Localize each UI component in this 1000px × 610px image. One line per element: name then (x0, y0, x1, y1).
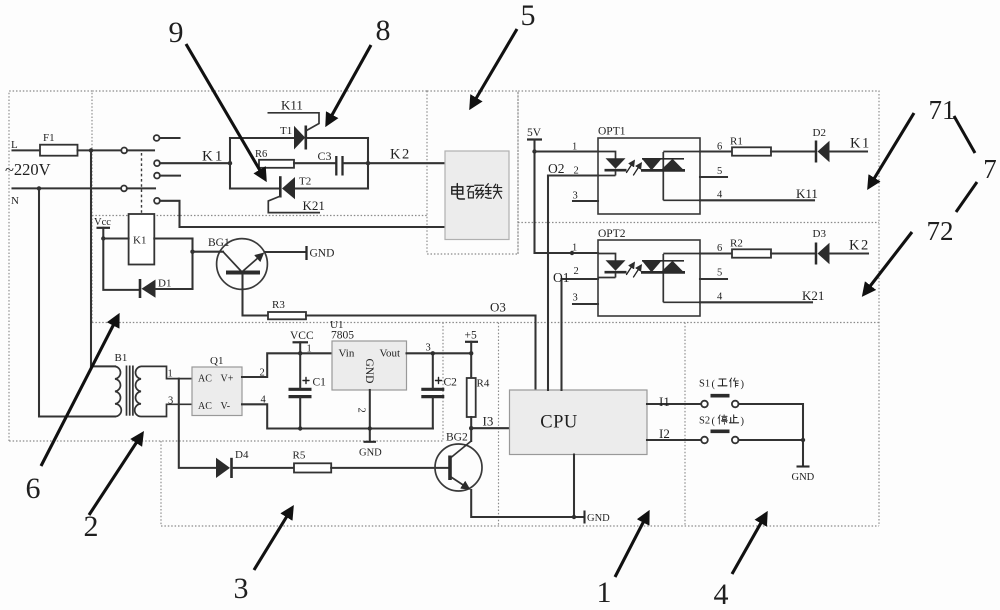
svg-text:Vin: Vin (339, 348, 355, 360)
node L junction (89, 148, 93, 152)
capacitor C1 (289, 388, 312, 391)
capacitor C2 (421, 388, 444, 391)
wire contact to electromagnet lower (160, 201, 445, 227)
wire branch frame (229, 138, 231, 189)
CPU U2 (510, 390, 648, 455)
svg-text:R5: R5 (293, 450, 306, 462)
relay contact top (154, 135, 160, 141)
svg-text:AC: AC (198, 401, 212, 412)
svg-text:R6: R6 (255, 149, 267, 160)
region 3 border (161, 441, 879, 526)
svg-text:2: 2 (574, 166, 579, 177)
svg-text:9: 9 (169, 16, 184, 49)
svg-text:GND: GND (310, 248, 335, 260)
svg-text:GND: GND (363, 359, 375, 384)
relay actuator dashed link (141, 153, 143, 213)
svg-text:R4: R4 (477, 378, 490, 390)
wire switches to gnd (739, 404, 804, 466)
svg-text:2: 2 (84, 510, 99, 543)
node branch frame left (228, 161, 232, 165)
svg-text:GND: GND (587, 513, 610, 524)
lower horizontal border (92, 322, 879, 324)
wire Vout rail (407, 352, 472, 354)
svg-text:3: 3 (168, 396, 173, 407)
resistor R4 (467, 378, 476, 417)
ground at CPU (583, 511, 585, 524)
svg-text:K21: K21 (802, 288, 824, 303)
svg-text:C3: C3 (318, 149, 332, 163)
wire OPT2 pin5 stub (700, 278, 727, 280)
wire Q1 V- to ground rail (242, 404, 433, 428)
wire D4 feed (179, 379, 216, 468)
wire Vcc to K1 coil (103, 237, 128, 239)
electromagnet box (445, 151, 509, 240)
region 7 box border (518, 91, 879, 526)
wire OPT2 pin4 to K21 (700, 301, 812, 303)
node 5V junction (532, 149, 536, 153)
svg-text:3: 3 (573, 191, 578, 202)
node OPT2 pin1 junction (570, 251, 574, 255)
svg-text:I1: I1 (659, 394, 670, 409)
svg-text:8: 8 (376, 14, 391, 47)
relay contact on N (121, 186, 127, 192)
node switch gnd junction (801, 438, 805, 442)
svg-text:5V: 5V (527, 127, 542, 139)
wire N drop to transformer (39, 188, 115, 416)
svg-text:1: 1 (572, 243, 577, 254)
svg-text:GND: GND (792, 472, 815, 483)
svg-text:K1: K1 (850, 136, 871, 152)
svg-text:VCC: VCC (290, 330, 314, 342)
label ci (magnet) (467, 185, 484, 198)
svg-text:S2: S2 (699, 416, 710, 427)
svg-text:71: 71 (929, 95, 956, 125)
svg-text:GND: GND (359, 448, 382, 459)
wire OPT1 pin5 stub (700, 176, 727, 178)
svg-text:F1: F1 (43, 132, 55, 144)
node +5 rail junction (469, 351, 473, 355)
svg-text:C2: C2 (444, 377, 458, 389)
region 71/72 divider (518, 222, 879, 224)
svg-text:R3: R3 (272, 299, 285, 311)
region 6 outer border (9, 91, 92, 441)
wire CPU gnd stem (573, 455, 575, 518)
wire D1 loop left (103, 239, 139, 290)
svg-text:V+: V+ (221, 374, 234, 385)
svg-text:4: 4 (717, 292, 723, 303)
svg-text:I2: I2 (659, 426, 670, 441)
wire 5V to OPT1 pin1 (535, 150, 599, 152)
wire O3 net (306, 314, 536, 316)
svg-text:(: ( (712, 416, 716, 427)
svg-text:BG2: BG2 (446, 432, 468, 444)
svg-text:K2: K2 (849, 238, 870, 254)
wire O1 to OPT2 pin2 (562, 278, 599, 280)
svg-text:4: 4 (714, 578, 729, 610)
wire bottom branch (230, 187, 280, 189)
wire OPT1 pin4 to K11 (700, 199, 814, 201)
region 1/4 divider (684, 323, 686, 527)
svg-text:~220V: ~220V (5, 160, 51, 179)
svg-text:3: 3 (234, 572, 249, 605)
label tie (iron) (485, 184, 502, 199)
svg-text:72: 72 (927, 216, 954, 246)
wire Q1 V+ to VCC rail (242, 353, 332, 377)
svg-text:B1: B1 (115, 352, 128, 364)
wire K1 coil to BG1 collector (154, 237, 192, 239)
svg-text:Q1: Q1 (210, 355, 223, 367)
node gnd rail junction (368, 426, 372, 430)
svg-text:Vout: Vout (380, 348, 401, 360)
svg-text:I3: I3 (483, 414, 494, 429)
svg-text:3: 3 (426, 343, 431, 354)
svg-text:CPU: CPU (540, 413, 578, 433)
region 1/3 divider (498, 323, 500, 527)
svg-text:K11: K11 (281, 98, 303, 113)
svg-text:+5: +5 (465, 330, 477, 342)
node VCC rail junction (298, 351, 302, 355)
svg-text:1: 1 (597, 576, 612, 609)
node C1 ground rail (298, 426, 302, 430)
node N junction (37, 186, 41, 190)
svg-text:D2: D2 (813, 127, 826, 139)
wire N line (13, 187, 122, 189)
wire O1 net (560, 279, 562, 390)
wire L drop to transformer (90, 150, 92, 366)
svg-text:3: 3 (573, 293, 578, 304)
relay contact bottom (154, 198, 160, 204)
node C2 rail junction (431, 351, 435, 355)
svg-text:O2: O2 (548, 161, 565, 176)
svg-text:R2: R2 (730, 238, 743, 250)
svg-text:5: 5 (521, 0, 536, 32)
svg-text:C1: C1 (313, 377, 327, 389)
wire I1 (647, 403, 701, 405)
wire OPT2 pin6 to R2 (700, 252, 732, 254)
node I3 junction (469, 426, 473, 430)
svg-text:K21: K21 (303, 198, 325, 213)
svg-text:Vcc: Vcc (94, 217, 111, 228)
ground at 7805 (364, 441, 377, 443)
svg-text:D1: D1 (158, 278, 171, 290)
svg-text:6: 6 (26, 472, 41, 505)
label dian (electro) (452, 184, 465, 199)
wire OPT1 pin3 stub (573, 200, 598, 202)
svg-text:7: 7 (983, 154, 997, 184)
svg-text:2: 2 (574, 266, 579, 277)
svg-text:OPT1: OPT1 (598, 126, 626, 138)
wire top branch (230, 137, 294, 139)
ground at BG1 (305, 246, 307, 260)
wire T2 gate to K21 (268, 196, 320, 213)
relay contact K1 (154, 160, 160, 166)
wire BG1 base to R3 (243, 275, 269, 316)
svg-text:5: 5 (717, 268, 722, 279)
svg-text:4: 4 (717, 190, 723, 201)
wire O2 to OPT1 pin2 (548, 174, 598, 176)
node CPU gnd junction (572, 515, 576, 519)
svg-text:V-: V- (221, 401, 231, 412)
svg-text:): ) (741, 416, 745, 427)
svg-text:5: 5 (717, 166, 722, 177)
wire I3 to CPU (471, 427, 509, 429)
svg-text:): ) (741, 379, 745, 390)
region 5 box border (427, 91, 518, 254)
svg-text:(: ( (712, 379, 716, 390)
svg-text:D3: D3 (813, 228, 827, 240)
wire K2 to electromagnet (368, 162, 445, 164)
ground at switches (797, 465, 810, 467)
svg-text:2: 2 (356, 408, 367, 413)
svg-text:AC: AC (198, 374, 212, 385)
svg-text:T1: T1 (280, 125, 292, 137)
svg-text:K1: K1 (133, 235, 146, 247)
svg-text:O3: O3 (490, 300, 506, 315)
svg-text:S1: S1 (699, 379, 710, 390)
region 8/9 thyristor box border (92, 91, 427, 322)
node branch frame right (366, 161, 370, 165)
relay coil K1 (129, 214, 155, 265)
svg-text:R1: R1 (730, 136, 743, 148)
wire 5V to OPT2 pin1 (535, 252, 599, 254)
wire 7805 gnd stem (369, 390, 371, 442)
relay contact mid (154, 173, 160, 179)
svg-text:6: 6 (717, 243, 722, 254)
svg-text:O1: O1 (553, 270, 570, 285)
svg-text:1: 1 (168, 369, 173, 380)
node Vcc junction (101, 236, 105, 240)
wire T1 gate to K11 (268, 113, 320, 131)
svg-text:1: 1 (307, 344, 312, 355)
power module border (9, 323, 443, 442)
svg-text:1: 1 (572, 142, 577, 153)
wire I2 (647, 439, 701, 441)
wire OPT2 pin3 stub (573, 303, 598, 305)
svg-text:N: N (11, 195, 19, 207)
svg-text:7805: 7805 (331, 330, 354, 342)
wire OPT1 pin6 to R1 (700, 150, 732, 152)
svg-text:OPT2: OPT2 (598, 228, 626, 240)
svg-text:D4: D4 (235, 449, 249, 461)
relay contact on L (121, 148, 127, 154)
svg-text:K2: K2 (390, 147, 411, 163)
svg-text:K11: K11 (796, 186, 818, 201)
svg-text:L: L (11, 139, 18, 151)
node collector junction (190, 250, 194, 254)
wire O2 net (547, 176, 549, 391)
svg-text:T2: T2 (299, 176, 311, 188)
svg-text:K1: K1 (202, 149, 224, 165)
